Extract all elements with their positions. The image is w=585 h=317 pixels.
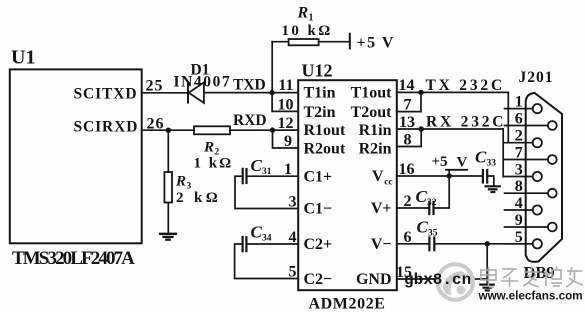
svg-text:2 kΩ: 2 kΩ bbox=[176, 190, 221, 206]
svg-text:5: 5 bbox=[289, 264, 297, 281]
svg-text:R: R bbox=[297, 4, 309, 21]
svg-text:8: 8 bbox=[404, 132, 412, 149]
svg-text:IN4007: IN4007 bbox=[174, 74, 232, 91]
svg-text:34: 34 bbox=[262, 233, 272, 243]
svg-text:5: 5 bbox=[515, 229, 523, 246]
svg-text:25: 25 bbox=[146, 77, 164, 94]
svg-text:9: 9 bbox=[284, 133, 292, 150]
svg-text:1: 1 bbox=[515, 94, 523, 111]
svg-text:7: 7 bbox=[404, 97, 412, 114]
svg-text:C: C bbox=[251, 222, 263, 241]
svg-text:RXD: RXD bbox=[233, 112, 267, 129]
svg-text:C: C bbox=[417, 217, 429, 236]
svg-text:1: 1 bbox=[284, 161, 292, 178]
svg-text:1: 1 bbox=[309, 12, 314, 23]
svg-text:C: C bbox=[251, 156, 263, 175]
svg-text:7: 7 bbox=[515, 145, 523, 162]
svg-text:R1in: R1in bbox=[359, 122, 392, 139]
svg-text:+5 V: +5 V bbox=[357, 35, 395, 52]
svg-text:U12: U12 bbox=[302, 60, 333, 80]
svg-text:R1out: R1out bbox=[304, 122, 346, 139]
svg-text:R: R bbox=[203, 140, 214, 156]
svg-text:16: 16 bbox=[399, 161, 415, 178]
svg-text:J201: J201 bbox=[519, 69, 554, 86]
svg-text:8: 8 bbox=[515, 178, 523, 195]
svg-text:26: 26 bbox=[147, 115, 165, 132]
svg-text:V+: V+ bbox=[371, 200, 392, 217]
svg-text:cc: cc bbox=[384, 178, 392, 188]
svg-text:31: 31 bbox=[262, 167, 272, 177]
svg-text:T2out: T2out bbox=[351, 104, 393, 121]
svg-text:10: 10 bbox=[278, 96, 294, 113]
svg-text:C1−: C1− bbox=[304, 201, 333, 218]
svg-text:4: 4 bbox=[515, 195, 523, 212]
svg-text:TX 232C: TX 232C bbox=[426, 77, 505, 94]
svg-text:V: V bbox=[372, 168, 384, 185]
svg-text:SCITXD: SCITXD bbox=[74, 86, 138, 103]
svg-text:T1in: T1in bbox=[304, 85, 336, 102]
svg-text:6: 6 bbox=[404, 229, 412, 246]
svg-text:32: 32 bbox=[427, 198, 437, 208]
svg-text:+5: +5 bbox=[432, 154, 448, 170]
svg-text:12: 12 bbox=[278, 115, 294, 132]
svg-text:V: V bbox=[457, 154, 468, 170]
svg-text:C2+: C2+ bbox=[304, 236, 333, 253]
svg-text:TMS320LF2407A: TMS320LF2407A bbox=[12, 248, 135, 269]
svg-text:1 kΩ: 1 kΩ bbox=[194, 156, 234, 172]
svg-text:6: 6 bbox=[515, 111, 523, 128]
svg-text:C1+: C1+ bbox=[304, 168, 333, 185]
svg-text:14: 14 bbox=[399, 77, 415, 94]
svg-text:10 kΩ: 10 kΩ bbox=[282, 23, 333, 39]
svg-text:T2in: T2in bbox=[304, 104, 336, 121]
svg-text:C: C bbox=[475, 148, 487, 167]
svg-text:13: 13 bbox=[399, 114, 415, 131]
svg-text:V−: V− bbox=[371, 236, 392, 253]
svg-text:2: 2 bbox=[404, 193, 412, 210]
svg-text:9: 9 bbox=[515, 212, 523, 229]
svg-text:3: 3 bbox=[515, 162, 523, 179]
svg-text:3: 3 bbox=[289, 194, 297, 211]
svg-text:33: 33 bbox=[487, 159, 497, 169]
svg-text:35: 35 bbox=[428, 228, 438, 238]
svg-text:U1: U1 bbox=[11, 46, 35, 68]
svg-text:TXD: TXD bbox=[233, 76, 266, 93]
svg-text:gbx8.cn: gbx8.cn bbox=[404, 271, 471, 289]
svg-text:11: 11 bbox=[278, 77, 293, 94]
svg-text:R2out: R2out bbox=[304, 140, 346, 157]
svg-text:R2in: R2in bbox=[359, 140, 392, 157]
svg-text:RX 232C: RX 232C bbox=[426, 113, 506, 130]
svg-text:SCIRXD: SCIRXD bbox=[74, 119, 139, 136]
svg-text:ADM202E: ADM202E bbox=[309, 296, 386, 313]
svg-text:GND: GND bbox=[356, 271, 392, 288]
svg-text:T1out: T1out bbox=[351, 85, 393, 102]
svg-text:C: C bbox=[416, 187, 428, 206]
svg-text:4: 4 bbox=[289, 229, 297, 246]
svg-text:www.elecfans.com: www.elecfans.com bbox=[478, 290, 583, 303]
svg-text:C2−: C2− bbox=[304, 271, 333, 288]
svg-text:2: 2 bbox=[515, 128, 523, 145]
svg-text:R: R bbox=[175, 174, 186, 190]
